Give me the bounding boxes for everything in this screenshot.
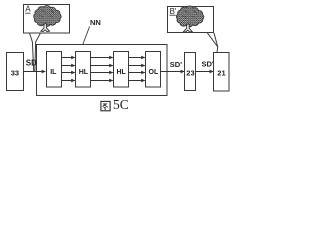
tree A <box>34 6 62 32</box>
svg-text:23: 23 <box>186 69 194 78</box>
arrow SD' (OL to 23) <box>161 71 185 73</box>
arrow SD (33 to IL) <box>24 71 46 73</box>
box HL2 <box>114 52 129 88</box>
callout tail A <box>30 33 34 71</box>
svg-text:5C: 5C <box>113 97 129 112</box>
svg-text:B': B' <box>170 7 177 16</box>
arrows HL1 to HL2 <box>91 58 113 81</box>
svg-text:IL: IL <box>50 69 57 76</box>
svg-text:HL: HL <box>79 69 89 76</box>
box HL1 <box>76 52 91 88</box>
box A (photo frame top-left) <box>24 5 70 34</box>
svg-text:33: 33 <box>11 69 19 78</box>
big box NN <box>37 45 168 96</box>
NN pointer line <box>83 27 90 45</box>
svg-text:21: 21 <box>217 69 225 78</box>
svg-text:SD': SD' <box>202 60 214 69</box>
arrows HL2 to OL <box>129 58 145 81</box>
arrows IL to HL1 <box>62 58 75 81</box>
caption glyph 图 (drawn) <box>101 101 110 110</box>
svg-text:NN: NN <box>90 18 101 27</box>
svg-text:OL: OL <box>149 69 159 76</box>
svg-text:A: A <box>25 5 31 14</box>
box 33 <box>7 53 24 91</box>
tree B' <box>176 6 204 32</box>
box OL <box>146 52 161 88</box>
svg-text:SD: SD <box>26 59 37 68</box>
svg-text:HL: HL <box>117 69 127 76</box>
svg-text:SD': SD' <box>170 60 182 69</box>
box 21 <box>214 53 230 92</box>
arrow SD' (23 to 21) <box>196 71 214 73</box>
callout tail B' <box>207 33 217 47</box>
box IL <box>47 52 62 88</box>
box B' (photo frame top-right) <box>168 7 214 33</box>
box 23 <box>185 53 196 91</box>
